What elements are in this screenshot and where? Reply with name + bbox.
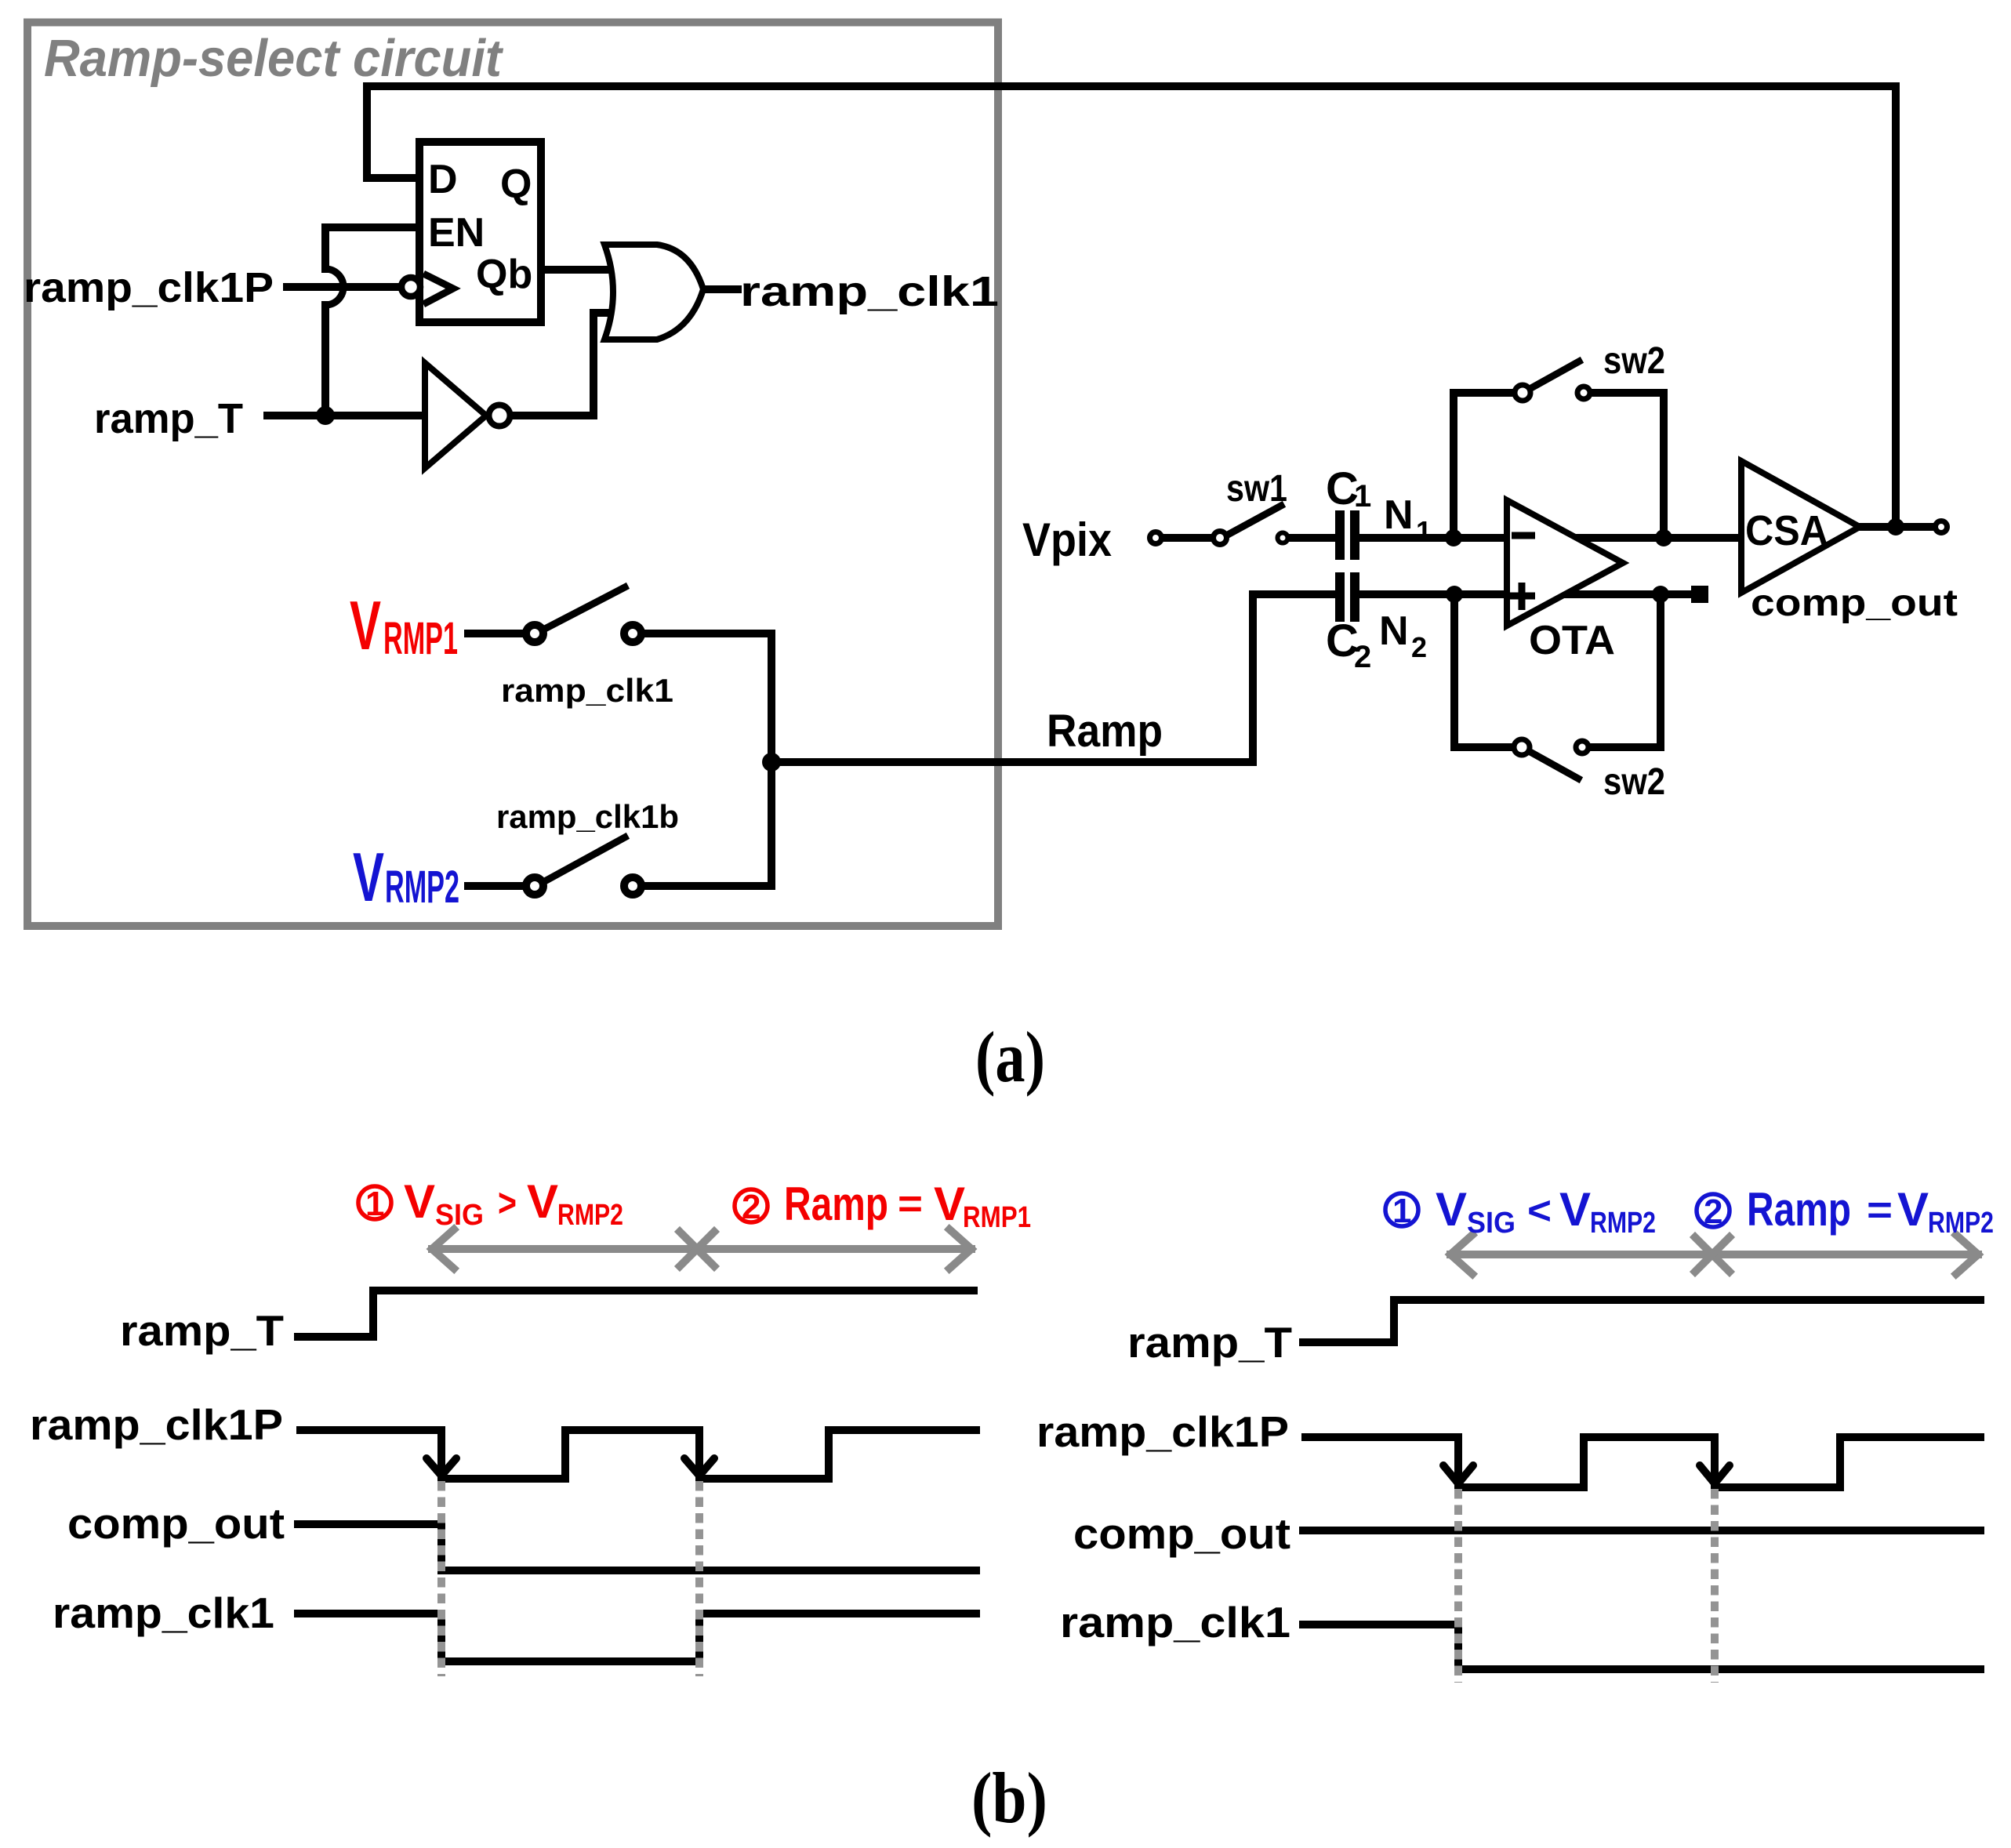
svg-text:V: V	[350, 586, 381, 664]
svg-text:sw2: sw2	[1603, 340, 1665, 382]
svg-text:V: V	[353, 838, 384, 916]
svg-text:2: 2	[1704, 1193, 1722, 1231]
svg-text:(b): (b)	[971, 1758, 1047, 1838]
svg-text:sw2: sw2	[1603, 761, 1665, 803]
svg-text:V: V	[1559, 1183, 1591, 1236]
svg-text:RMP2: RMP2	[1928, 1207, 1994, 1240]
svg-text:1: 1	[1416, 515, 1432, 547]
svg-text:1: 1	[365, 1185, 384, 1223]
svg-text:CSA: CSA	[1745, 507, 1828, 554]
svg-text:RMP2: RMP2	[385, 862, 459, 913]
svg-text:ramp_clk1: ramp_clk1	[1060, 1598, 1290, 1646]
svg-text:Ramp: Ramp	[784, 1178, 888, 1230]
svg-text:RMP2: RMP2	[557, 1199, 623, 1232]
svg-text:ramp_clk1P: ramp_clk1P	[1036, 1407, 1289, 1456]
svg-text:ramp_T: ramp_T	[120, 1306, 284, 1355]
svg-text:D: D	[428, 157, 458, 202]
svg-text:V: V	[404, 1175, 435, 1228]
svg-text:ramp_T: ramp_T	[94, 395, 243, 442]
svg-text:SIG: SIG	[435, 1199, 484, 1232]
svg-text:RMP2: RMP2	[1590, 1207, 1656, 1240]
svg-text:=: =	[898, 1182, 923, 1225]
svg-text:ramp_T: ramp_T	[1127, 1318, 1292, 1367]
svg-text:Qb: Qb	[476, 252, 532, 297]
svg-text:RMP1: RMP1	[963, 1201, 1031, 1234]
svg-text:ramp_clk1: ramp_clk1	[53, 1588, 274, 1637]
svg-text:RMP1: RMP1	[383, 613, 458, 664]
svg-text:comp_out: comp_out	[1751, 583, 1958, 624]
svg-text:ramp_clk1: ramp_clk1	[501, 672, 673, 709]
svg-text:=: =	[1867, 1188, 1893, 1232]
svg-text:ramp_clk1b: ramp_clk1b	[496, 798, 679, 835]
svg-text:>: >	[498, 1181, 517, 1225]
svg-text:sw1: sw1	[1226, 468, 1287, 510]
svg-text:<: <	[1527, 1189, 1552, 1233]
svg-text:N: N	[1379, 608, 1409, 654]
svg-text:Ramp: Ramp	[1047, 706, 1163, 757]
svg-text:comp_out: comp_out	[67, 1499, 285, 1548]
svg-text:2: 2	[1411, 631, 1427, 663]
svg-text:(a): (a)	[975, 1017, 1045, 1097]
svg-text:comp_out: comp_out	[1073, 1509, 1290, 1558]
svg-text:V: V	[934, 1178, 965, 1230]
svg-text:V: V	[1436, 1183, 1467, 1236]
svg-text:V: V	[1897, 1183, 1929, 1236]
svg-text:Ramp: Ramp	[1747, 1183, 1851, 1236]
svg-text:Vpix: Vpix	[1022, 514, 1112, 566]
svg-text:OTA: OTA	[1529, 618, 1615, 663]
svg-text:ramp_clk1P: ramp_clk1P	[30, 1400, 283, 1449]
svg-text:2: 2	[1354, 640, 1371, 674]
svg-text:Ramp-select circuit: Ramp-select circuit	[44, 29, 504, 88]
svg-text:2: 2	[742, 1188, 760, 1226]
svg-text:N: N	[1384, 492, 1414, 538]
svg-text:SIG: SIG	[1467, 1207, 1516, 1240]
svg-text:1: 1	[1392, 1192, 1411, 1230]
svg-text:V: V	[527, 1175, 558, 1228]
svg-text:Q: Q	[500, 162, 532, 207]
svg-text:ramp_clk1: ramp_clk1	[740, 268, 999, 315]
svg-text:1: 1	[1354, 479, 1371, 514]
svg-text:ramp_clk1P: ramp_clk1P	[24, 264, 274, 311]
svg-text:EN: EN	[428, 210, 485, 256]
